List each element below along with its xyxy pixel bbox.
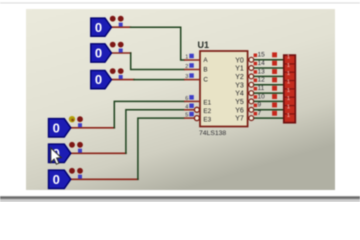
svg-text:1: 1 [287, 113, 290, 119]
svg-text:B: B [203, 67, 207, 74]
pin 3 (C) stub, number and state square [184, 73, 208, 83]
svg-text:15: 15 [258, 52, 266, 59]
svg-text:1: 1 [185, 55, 188, 61]
logic state input LS6 [49, 168, 83, 189]
schematic canvas background [26, 9, 335, 190]
logic state input LS1 [91, 16, 124, 37]
logic state input LS2 [91, 42, 124, 62]
svg-text:1: 1 [287, 96, 290, 102]
top hairline [0, 2, 360, 3]
svg-text:3: 3 [185, 74, 188, 80]
svg-text:5: 5 [185, 113, 188, 119]
output Y7 pin 7: label, bubble, wire, state squares [235, 110, 284, 123]
svg-text:1: 1 [287, 80, 290, 86]
svg-text:1: 1 [287, 105, 290, 111]
svg-text:12: 12 [258, 77, 266, 84]
svg-text:Y7: Y7 [235, 116, 244, 123]
pin 5 (E3) stub, number and state square [184, 112, 212, 124]
svg-text:0: 0 [95, 72, 102, 87]
svg-text:14: 14 [258, 60, 266, 67]
pin 4 (E2) stub, number and state square [184, 104, 212, 116]
pin 6 (E1) stub, number and state square [184, 95, 212, 107]
svg-text:E2: E2 [203, 108, 211, 115]
svg-text:1: 1 [287, 55, 290, 61]
svg-text:Y0: Y0 [235, 57, 244, 64]
svg-text:7: 7 [258, 110, 262, 117]
wire LS2 output to pin 2 (B) [112, 53, 185, 70]
svg-text:Y3: Y3 [235, 82, 244, 89]
svg-text:Y1: Y1 [235, 66, 244, 73]
svg-text:10: 10 [258, 93, 266, 100]
svg-text:1: 1 [287, 88, 290, 94]
svg-text:E1: E1 [203, 100, 211, 107]
svg-text:0: 0 [95, 46, 102, 61]
wire LS5 output to pin 4 (E2) [71, 110, 184, 154]
svg-text:0: 0 [53, 120, 60, 135]
svg-text:Y2: Y2 [235, 74, 244, 81]
pin 1 (A) stub, number and state square [184, 54, 208, 64]
output Y2 pin 13: label, bubble, wire, state squares [235, 68, 284, 81]
svg-text:4: 4 [185, 104, 188, 110]
logic probe stack (8 cells showing 1) [284, 55, 296, 123]
output Y4 pin 11: label, bubble, wire, state squares [235, 85, 284, 98]
svg-text:U1: U1 [198, 40, 210, 50]
output Y3 pin 12: label, bubble, wire, state squares [235, 77, 284, 90]
svg-text:1: 1 [287, 71, 290, 77]
svg-text:11: 11 [258, 85, 265, 92]
output Y1 pin 14: label, bubble, wire, state squares [235, 60, 284, 73]
output Y6 pin 9: label, bubble, wire, state squares [235, 102, 284, 115]
wire LS4 output to pin 6 (E1) [71, 101, 184, 127]
logic state input LS3 [91, 68, 124, 89]
svg-text:Y5: Y5 [235, 99, 244, 106]
svg-text:Y4: Y4 [235, 91, 244, 98]
svg-text:6: 6 [185, 96, 188, 102]
logic state input LS5 [49, 142, 83, 163]
output Y0 pin 15: label, bubble, wire, state squares [235, 52, 284, 65]
IC U1 74LS138 body [198, 40, 248, 137]
svg-text:0: 0 [53, 172, 60, 187]
svg-text:E3: E3 [203, 116, 211, 123]
svg-text:13: 13 [258, 68, 266, 75]
logic state input LS4 [49, 116, 83, 137]
svg-text:2: 2 [185, 64, 188, 70]
svg-text:C: C [203, 77, 208, 84]
bottom window edge band [0, 196, 360, 202]
svg-text:0: 0 [95, 20, 102, 35]
mouse cursor [51, 148, 61, 164]
svg-text:9: 9 [258, 102, 262, 109]
pin 2 (B) stub, number and state square [184, 63, 208, 73]
svg-text:74LS138: 74LS138 [199, 130, 226, 137]
svg-text:Y6: Y6 [235, 107, 244, 114]
wire LS6 output to pin 5 (E3) [71, 118, 184, 179]
svg-text:1: 1 [287, 63, 290, 69]
output Y5 pin 10: label, bubble, wire, state squares [235, 93, 284, 106]
wire LS1 output to pin 1 (A) [112, 27, 185, 60]
wire LS3 output to pin 3 (C) [112, 79, 185, 81]
